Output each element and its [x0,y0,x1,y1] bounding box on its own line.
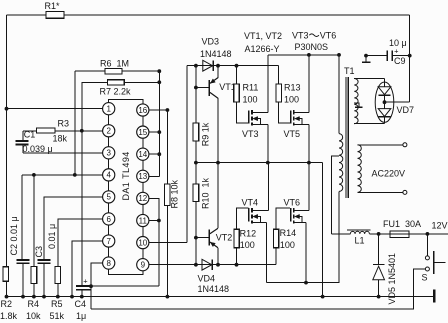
wire R6 left lead [75,70,105,72]
wire T1 primary centre tap [331,156,339,234]
svg-text:2: 2 [106,127,111,136]
node junction VD7 centre [383,100,387,104]
svg-text:R6 1M: R6 1M [100,59,129,69]
node junction R6 right [157,69,161,73]
svg-text:1N4148: 1N4148 [200,49,232,59]
diode VD4 1N4148 [202,259,212,270]
wire midrail ground return [196,162,323,164]
wire VT6 source leg [305,222,307,282]
svg-text:R4: R4 [28,299,40,309]
svg-text:DA1 TL494: DA1 TL494 [121,151,131,200]
resistor R11 [234,84,240,102]
svg-text:R10 1k: R10 1k [201,177,211,209]
svg-text:100: 100 [240,240,255,250]
wire C9 left lead [366,55,387,57]
fuse FU1 30A [390,231,409,237]
wire pin 5 lead to C3 [44,197,103,259]
wire feedback winding centre tap ground [354,103,359,107]
capacitor C2 [17,259,30,261]
svg-text:18k: 18k [53,134,68,144]
wire pin 13 lead [149,175,160,177]
capacitor C1 [16,140,29,142]
node junction R2 ground [5,295,9,299]
terminal AC output top [403,143,407,147]
switch S contact bottom [425,267,429,271]
transformer T1 core [345,77,347,198]
node junction R4 on pin4 lead [32,173,36,177]
wire VT4 VT6 sources to T1 primary bottom [266,191,339,282]
wire pin 4 lead [22,174,103,176]
svg-text:VD7: VD7 [397,105,415,115]
svg-text:1.8k: 1.8k [0,311,18,321]
resistor R14 [274,229,279,247]
svg-text:100: 100 [243,95,258,105]
wire C1 top stub [22,131,24,140]
wire R5 bottom lead [57,283,59,296]
node junction pin8 C4 VCC [89,284,93,288]
resistor R3 [37,128,56,133]
svg-text:L1: L1 [355,236,365,246]
resistor R4 [31,267,37,284]
svg-text:7: 7 [106,237,111,246]
svg-text:R13: R13 [284,83,301,93]
node junction VD5 top [377,232,381,236]
wire VCC bus from pin8 leg to switch [91,269,425,309]
resistor R7 [107,80,124,85]
svg-text:4: 4 [106,171,111,180]
transistor Q VT1 A1266 [196,66,218,99]
wire switch top leg [426,234,428,256]
svg-text:C9: C9 [394,56,406,66]
svg-text:1μ: 1μ [76,311,86,321]
wire REF vertical pins 13-14-15 [158,71,160,176]
resistor R13 [276,84,282,102]
wire VT5 source leg [308,125,310,163]
battery negative terminal bar [433,290,435,303]
wire L1 to fuse [369,233,390,235]
node junction VT2 emitter on VD4 rail [216,263,220,267]
wire midrail down to ground bus [322,163,324,297]
wire pin 11 lead [149,220,159,222]
node junction VT1 emitter on VD3 rail [216,64,220,68]
wire ground bus [7,296,435,298]
svg-text:VD3: VD3 [202,37,220,47]
switch S contact top [425,256,429,260]
node junction pin1 lead on left bus [5,107,9,111]
node junction C9 top rail [408,54,412,58]
wire fuse to 12V terminal [409,233,448,235]
capacitor C3 [38,259,51,261]
wire R14 bottom leg [275,248,277,265]
node junction R4 ground [32,295,36,299]
wire R7 left lead and leg [82,82,108,285]
svg-text:R12: R12 [240,229,257,239]
wire VD5 bottom leg [378,280,380,297]
svg-text:R3: R3 [58,119,70,129]
wire pin 8 lead to VCC node [91,263,103,309]
node junction R6 line on pin4 lead [73,173,77,177]
wire VT3 source leg [267,125,269,163]
svg-text:VT6: VT6 [284,198,301,208]
wire left bus x=6.5 from top rail to R2 [6,15,8,267]
svg-text:6: 6 [106,215,111,224]
wire top rail from R1 to C9 node [7,14,410,16]
svg-text:16: 16 [138,106,147,115]
wire R2 bottom lead [6,281,8,296]
node junction VT3 VT4 midrail [266,161,270,165]
resistor R1 [46,12,64,19]
wire feedback winding top lead [354,78,385,80]
transistor VT3 MOSFET [249,110,268,125]
wire C2 bottom stub [22,264,24,297]
svg-text:1: 1 [106,105,111,114]
node junction pin16 R8 [166,108,170,112]
diode VD7 dual rectifier [375,79,394,124]
wire VT4 source leg [265,222,267,282]
node junction R7 right [157,80,161,84]
svg-text:8: 8 [106,259,111,268]
wire C2 top stub down from pin4 lead [21,175,23,259]
wire feedback winding bottom lead [354,123,385,125]
node junction rail to T1 [337,53,341,57]
inductor T1 primary winding [339,134,343,192]
svg-text:R7 2.2k: R7 2.2k [100,87,132,97]
transistor Q VT2 A1266 [196,228,218,265]
svg-text:VT3: VT3 [292,31,309,41]
diode VD5 1N5401 [373,264,384,266]
node junction VD4 anode [194,263,198,267]
wire VT4 drain leg [267,163,269,211]
node junction VT6 source [304,281,308,285]
wire pin 3 lead [23,152,103,154]
node junction collectors midrail [216,161,220,165]
wire R13 to VT5 gate [279,102,290,123]
svg-text:11: 11 [139,216,148,225]
node junction VT2 base [194,236,198,240]
wire VT3 drain leg [267,55,269,113]
wire pin 2 lead with R3 [23,130,103,132]
wire VD5 top leg [378,234,380,265]
node junction R12 on VD4 rail [235,263,239,267]
svg-text:AC220V: AC220V [372,169,406,179]
node junction VT5 VT6 midrail [307,161,311,165]
inductor L1 [350,231,369,234]
inductor T1 feedback winding [354,79,358,124]
svg-text:VT4: VT4 [242,198,259,208]
wire R12 bottom leg [236,248,238,265]
wire R4 top leg [33,175,35,267]
node junction C4 ground [80,295,84,299]
resistor R12 [234,229,239,247]
node junction C2 ground [21,295,25,299]
svg-text:C1: C1 [24,130,36,140]
wire R4 bottom lead [33,283,35,296]
svg-text:R5: R5 [51,299,63,309]
svg-text:15: 15 [138,128,147,137]
wire C4 bottom stub [81,290,83,296]
svg-text:VT3: VT3 [242,129,259,139]
wire pin10 vertical [186,66,188,243]
wire VT6 drain leg [308,163,310,211]
node junction VD5 ground [377,295,381,299]
svg-text:10 μ: 10 μ [389,38,407,48]
node junction switch top [426,232,430,236]
node junction pin7 ground [70,295,74,299]
svg-text:VT5: VT5 [284,129,301,139]
svg-text:51k: 51k [50,311,65,321]
svg-text:VD4: VD4 [198,274,216,284]
svg-text:3: 3 [106,149,111,158]
node junction R8 on ground bus [166,295,170,299]
svg-text:13: 13 [138,172,147,181]
wire pin 15 lead [149,131,160,133]
wire R12 to VT4 gate [237,208,249,229]
svg-text:R2: R2 [1,299,13,309]
svg-text:A1266-Y: A1266-Y [245,44,280,54]
svg-text:10: 10 [138,238,147,247]
node junction pin14 [157,152,161,156]
wire pin 9 lead VD4 rail [149,264,277,266]
wire VD3 rail [187,65,279,67]
wire C1 bottom stub [22,145,24,153]
node junction midrail ground [321,295,325,299]
svg-text:R1*: R1* [45,1,61,11]
resistor R6 [105,69,122,74]
resistor R8 [165,184,170,206]
wire R6 left leg vertical [74,71,76,175]
wire R11 top lead [236,66,238,84]
node junction R9 R10 midrail [194,161,198,165]
resistor R2 [3,267,9,282]
transistor VT6 MOSFET [291,208,309,223]
node junction pin11 [157,219,161,223]
wire VCC horizontal to C4 [91,285,159,287]
node junction R5 ground [56,295,60,299]
node junction R7 leg on pin2 lead [80,129,84,133]
inductor T1 output winding AC220V [358,145,362,193]
svg-text:VD5 1N5401: VD5 1N5401 [387,253,397,305]
svg-text:VT2: VT2 [216,233,233,243]
diode VD3 1N4148 [203,60,213,71]
wire output winding bottom lead [358,191,403,193]
capacitor C4 electrolytic [76,285,91,287]
wire base chain vertical R9 R10 [195,66,197,265]
svg-text:C4: C4 [75,299,87,309]
wire R7 right lead [124,81,159,83]
svg-text:VT6: VT6 [320,31,337,41]
wire C3 bottom stub [43,264,45,297]
wire T1 primary top leg [338,55,340,134]
wire pin 16 lead [149,109,168,111]
svg-text:S: S [422,273,428,283]
node junction R11 top [235,64,239,68]
op-amp U1 DA1 TL494 IC body outline [109,100,143,275]
wire C9 right lead [392,55,410,57]
node junction VT1 base [194,86,198,90]
wire centre tap to L1 [331,233,350,235]
ground symbol at C9 [365,56,367,63]
svg-text:0.01 μ: 0.01 μ [47,224,57,249]
svg-text:VT1, VT2: VT1, VT2 [244,31,282,41]
wire drain rail [268,54,339,56]
wire VD7 centre to C9 node [385,101,410,103]
svg-text:+: + [83,277,88,286]
switch S blade [433,251,435,274]
svg-text:C3: C3 [34,246,44,258]
svg-text:R9 1k: R9 1k [201,122,211,146]
svg-text:9: 9 [141,261,146,270]
wire pin 7 lead to ground bus [72,241,103,297]
resistor R10 [193,184,199,202]
resistor R5 [55,267,61,284]
wire R8 vertical [166,110,168,297]
resistor R9 [193,123,199,141]
svg-text:5: 5 [106,193,111,202]
wire pin 1 lead [7,108,103,110]
svg-text:R8 10k: R8 10k [170,179,180,208]
svg-text:1N4148: 1N4148 [198,284,230,294]
svg-text:100: 100 [280,240,295,250]
wire VT1 collector to VT2 collector vertical [217,98,219,228]
wire C9 node vertical [409,15,411,102]
svg-text:100: 100 [284,95,299,105]
node junction base chain on VD3 rail [194,64,198,68]
node junction VT5 drain on rail [307,53,311,57]
wire R11 to VT3 gate [237,102,249,123]
transistor VT4 MOSFET [249,208,269,223]
svg-text:P30N0S: P30N0S [295,42,329,52]
svg-text:14: 14 [138,150,147,159]
wire pin 10 lead [149,242,187,244]
node junction pin15 [157,130,161,134]
node junction C3 ground [42,295,46,299]
IC pin number circles 1-16 [103,103,149,271]
terminal AC output bottom [403,190,407,194]
svg-text:T1: T1 [344,66,355,76]
svg-text:FU1 30A: FU1 30A [383,219,421,229]
wire R14 to VT6 gate [276,208,290,229]
wire output winding top lead [358,144,403,146]
wire R13 top lead [278,66,280,84]
wire pin 14 lead [149,153,160,155]
svg-text:12: 12 [138,194,147,203]
svg-text:R14: R14 [280,228,297,238]
wire pin 12 lead [149,198,159,286]
svg-text:12V: 12V [432,221,448,231]
svg-text:R11: R11 [243,83,259,93]
svg-text:10k: 10k [26,311,41,321]
transistor VT5 MOSFET [291,110,309,125]
wire VT5 drain leg [308,55,310,113]
wire R6 right lead [122,70,159,72]
capacitor C9 electrolytic [386,50,388,61]
wire pin 6 lead to R5 [58,219,103,267]
svg-text:C2 0.01 μ: C2 0.01 μ [9,216,19,255]
